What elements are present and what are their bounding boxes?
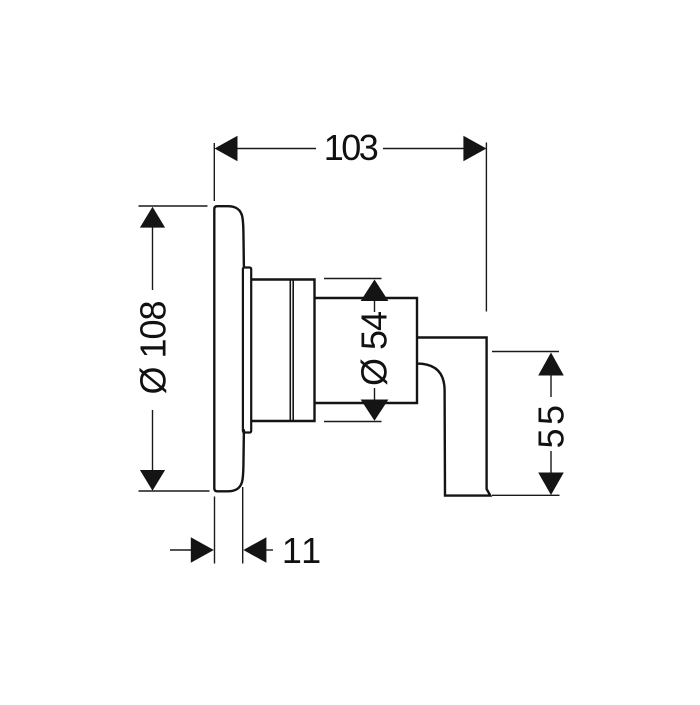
dim 55: top extension line	[492, 351, 559, 353]
dim 103: dimension line right segment	[383, 148, 465, 150]
dim 11: right arrowhead	[243, 537, 266, 563]
dim 103: left extension line	[213, 143, 215, 201]
dim Ø54: top arrowhead	[361, 280, 389, 302]
sleeve (Ø54 body)	[251, 280, 314, 422]
collar ring	[243, 268, 251, 433]
dim 55: dimension line upper tail	[550, 376, 552, 398]
svg-text:55: 55	[531, 401, 572, 448]
dim 55: bottom extension line	[492, 494, 560, 496]
lever handle	[417, 338, 490, 496]
escutcheon wall plate (dome profile)	[214, 206, 244, 491]
dim 11: left arrowhead	[191, 537, 214, 563]
dim Ø108: bottom extension line	[139, 490, 210, 492]
dim 103: right extension line	[485, 143, 487, 312]
dim Ø108: dimension line upper segment	[152, 227, 154, 290]
dim Ø54: bottom extension line	[324, 421, 382, 423]
dim 11: left leader line	[170, 549, 192, 551]
dim 55: top arrowhead	[538, 353, 564, 376]
dim Ø108: top extension line	[139, 205, 208, 207]
dim Ø54: dimension line upper tail	[374, 300, 376, 312]
dim Ø54: bottom arrowhead	[361, 400, 389, 421]
dim Ø54: top extension line	[324, 278, 382, 280]
svg-text:Ø 108: Ø 108	[132, 301, 173, 394]
cartridge cylinder	[315, 298, 418, 403]
dim Ø108: dimension line lower segment	[152, 410, 154, 471]
dim 11: right extension line	[242, 487, 244, 564]
sleeve groove line 1	[289, 280, 291, 421]
dim 55: bottom arrowhead	[538, 473, 564, 496]
dim 55: dimension line lower tail	[550, 451, 552, 473]
svg-text:11: 11	[282, 530, 323, 571]
dim 103: left arrowhead	[215, 136, 238, 162]
sleeve groove line 2	[292, 280, 294, 421]
svg-text:103: 103	[324, 127, 378, 168]
svg-text:Ø 54: Ø 54	[354, 312, 395, 386]
dim Ø108: bottom arrowhead	[140, 470, 165, 491]
dim 11: left extension line	[214, 497, 216, 564]
dim 11: right leader line	[265, 549, 273, 551]
dim Ø54: dimension line lower tail	[374, 388, 376, 400]
dim Ø108: top arrowhead	[140, 207, 165, 228]
dim 103: right arrowhead	[463, 136, 486, 162]
dim 103: dimension line left segment	[236, 148, 316, 150]
